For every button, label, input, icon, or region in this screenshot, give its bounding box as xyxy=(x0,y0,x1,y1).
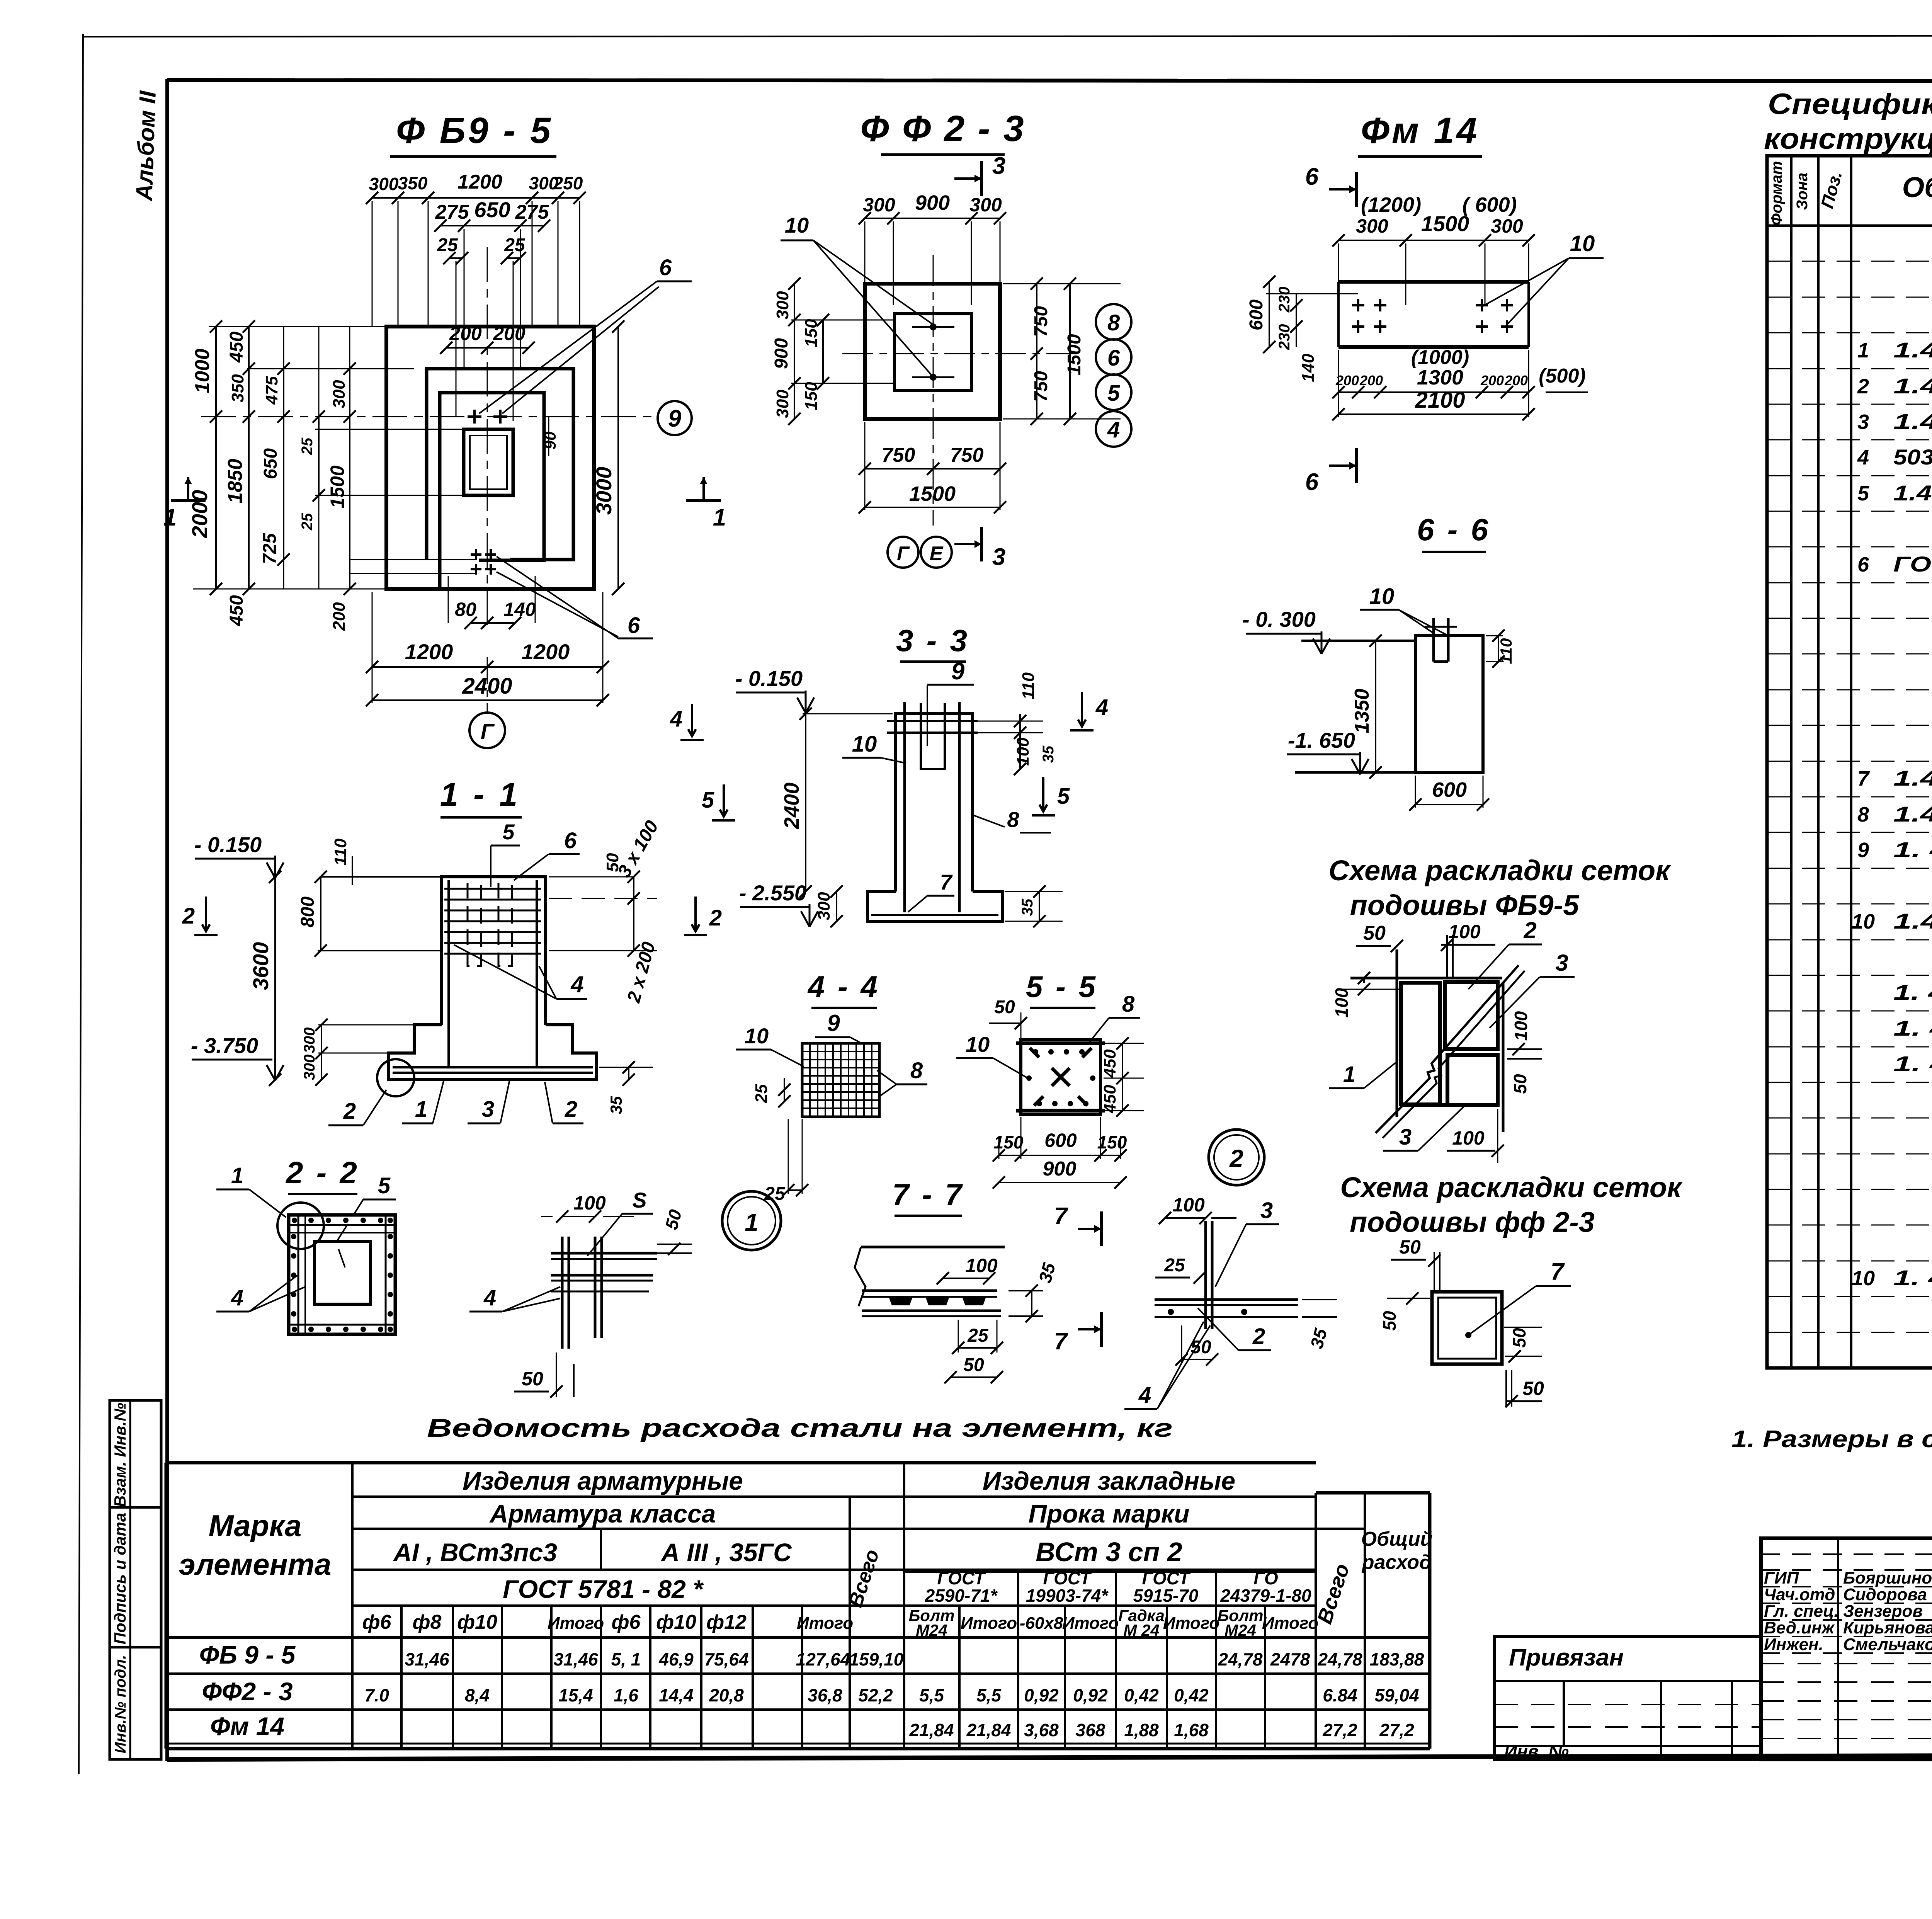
svg-text:50: 50 xyxy=(994,997,1015,1017)
svg-text:1500: 1500 xyxy=(1064,334,1085,375)
svg-text:- 0.150: - 0.150 xyxy=(194,832,262,857)
section mark 6 top xyxy=(1355,172,1358,207)
svg-text:2: 2 xyxy=(1252,1324,1265,1349)
svg-text:750: 750 xyxy=(1031,306,1051,337)
svg-text:600: 600 xyxy=(1044,1130,1077,1151)
svg-text:50: 50 xyxy=(1522,1378,1544,1399)
svg-text:600: 600 xyxy=(1432,778,1467,801)
svg-text:4: 4 xyxy=(1857,446,1869,469)
svg-text:600: 600 xyxy=(1246,299,1267,330)
svg-text:50: 50 xyxy=(1363,922,1386,944)
svg-text:50: 50 xyxy=(1510,1074,1530,1094)
ФФ2-3 bolts xyxy=(930,323,937,330)
svg-text:ГИП: ГИП xyxy=(1764,1569,1799,1587)
svg-text:5,5: 5,5 xyxy=(976,1685,1002,1705)
svg-text:элемента: элемента xyxy=(179,1547,332,1581)
3-3 wall outline xyxy=(896,714,973,891)
svg-text:1. Размеры в скобках ФМ14: 1. Размеры в скобках ФМ14 даны для узла … xyxy=(1731,1426,1932,1453)
svg-text:10: 10 xyxy=(1852,910,1875,933)
svg-text:Чач.отд: Чач.отд xyxy=(1764,1585,1835,1604)
svg-text:Итого: Итого xyxy=(1062,1614,1119,1633)
svg-text:2478: 2478 xyxy=(1270,1649,1310,1669)
right detail plates xyxy=(1155,1298,1298,1301)
ФБ9-5 dim 90 xyxy=(548,417,549,456)
svg-text:230: 230 xyxy=(1276,324,1293,350)
svg-text:- 2.550: - 2.550 xyxy=(739,881,806,905)
1-1 base rebar lines xyxy=(393,1066,593,1068)
svg-text:10: 10 xyxy=(852,732,877,757)
steel table bottom line xyxy=(166,1747,1430,1751)
svg-text:Инв. №: Инв. № xyxy=(1504,1741,1569,1761)
svg-text:100: 100 xyxy=(1014,737,1032,766)
схема ФБ9-5 mesh rect C xyxy=(1447,1055,1498,1105)
ФБ9-5 top dimension row 3 xyxy=(449,257,462,259)
node circle 2 xyxy=(1209,1130,1264,1185)
svg-text:5: 5 xyxy=(378,1173,391,1198)
svg-text:1500: 1500 xyxy=(909,482,956,505)
svg-text:250: 250 xyxy=(553,173,583,193)
svg-text:Е: Е xyxy=(930,543,944,565)
svg-text:Г: Г xyxy=(897,543,910,565)
svg-text:8: 8 xyxy=(1007,807,1019,832)
3-3 right top dims xyxy=(1019,714,1021,769)
svg-text:230: 230 xyxy=(1276,287,1293,313)
svg-text:1500: 1500 xyxy=(327,465,348,508)
svg-text:450: 450 xyxy=(1100,1085,1119,1114)
6-6 bottom ground line xyxy=(1295,771,1415,774)
svg-text:ф6: ф6 xyxy=(362,1611,392,1633)
svg-text:2: 2 xyxy=(343,1099,356,1124)
2-2 outer square xyxy=(289,1215,395,1334)
svg-text:100: 100 xyxy=(1332,988,1352,1017)
ФФ2-3 inner square xyxy=(895,314,971,390)
svg-text:3600: 3600 xyxy=(248,942,273,990)
svg-text:Общий: Общий xyxy=(1361,1528,1433,1550)
section mark 6 bottom xyxy=(1355,448,1358,483)
svg-text:150: 150 xyxy=(802,382,821,410)
svg-text:2: 2 xyxy=(1229,1145,1243,1172)
title block signature columns xyxy=(1837,1538,1839,1759)
svg-text:150: 150 xyxy=(994,1132,1024,1152)
svg-text:Сидорова: Сидорова xyxy=(1843,1585,1927,1604)
svg-text:5: 5 xyxy=(1857,482,1869,505)
3-3 base slab xyxy=(867,891,1002,921)
svg-text:Бояршинов: Бояршинов xyxy=(1843,1569,1932,1587)
svg-text:21,84: 21,84 xyxy=(966,1720,1011,1740)
svg-text:2: 2 xyxy=(565,1097,577,1122)
svg-text:900: 900 xyxy=(1043,1158,1077,1180)
svg-text:2: 2 xyxy=(1523,917,1536,943)
frame left border xyxy=(165,79,169,1761)
2-2 node circle xyxy=(277,1203,324,1249)
3-3 rebar verticals xyxy=(903,702,906,912)
svg-text:650: 650 xyxy=(474,197,510,222)
svg-text:1.410-3 вып. 1: 1.410-3 вып. 1 xyxy=(1893,766,1932,790)
svg-text:( 600): ( 600) xyxy=(1462,193,1517,216)
svg-text:2 - 2: 2 - 2 xyxy=(285,1155,359,1190)
svg-text:750: 750 xyxy=(950,444,984,466)
svg-text:300: 300 xyxy=(969,194,1002,216)
svg-text:6: 6 xyxy=(1305,469,1319,495)
ФБ9-5 bottom dim 80 140 xyxy=(471,622,487,624)
svg-text:1200: 1200 xyxy=(405,640,453,664)
5-5 right dims 450 450 xyxy=(1122,1043,1123,1111)
svg-text:подошвы ФБ9-5: подошвы ФБ9-5 xyxy=(1350,889,1580,921)
ФБ9-5 inner step ring xyxy=(440,393,544,589)
5-5 diagonal braces xyxy=(1030,1048,1092,1110)
svg-text:20,8: 20,8 xyxy=(709,1685,744,1705)
ФФ2-3 right dims xyxy=(1036,284,1037,419)
svg-text:750: 750 xyxy=(1031,371,1051,402)
section mark 1 left xyxy=(171,499,206,502)
svg-text:Гл. спец.: Гл. спец. xyxy=(1764,1602,1839,1621)
svg-text:1: 1 xyxy=(1343,1062,1355,1087)
svg-text:ф8: ф8 xyxy=(413,1611,442,1633)
svg-text:1,6: 1,6 xyxy=(614,1685,638,1705)
svg-text:150: 150 xyxy=(1097,1132,1127,1152)
svg-text:Подпись и дата: Подпись и дата xyxy=(111,1513,129,1644)
svg-text:Итого: Итого xyxy=(797,1614,853,1633)
svg-text:150: 150 xyxy=(802,319,821,347)
2-2 inner square xyxy=(315,1242,371,1304)
7-7 plate with studs xyxy=(862,1290,997,1292)
ФФ2-3 centerlines xyxy=(842,353,1082,354)
steel table right verticals xyxy=(958,1606,961,1749)
svg-text:10: 10 xyxy=(785,213,809,237)
svg-text:200: 200 xyxy=(1504,373,1528,388)
svg-text:300: 300 xyxy=(815,892,833,920)
svg-text:725: 725 xyxy=(260,533,280,564)
svg-text:50: 50 xyxy=(522,1368,543,1390)
svg-text:650: 650 xyxy=(260,448,281,479)
corner detail bars xyxy=(561,1237,564,1349)
axis circles Г Е xyxy=(888,537,918,568)
svg-text:5 - 5: 5 - 5 xyxy=(1026,970,1098,1004)
svg-text:3: 3 xyxy=(1857,410,1869,434)
svg-text:900: 900 xyxy=(915,191,950,214)
svg-text:31,46: 31,46 xyxy=(405,1649,449,1669)
svg-text:25: 25 xyxy=(299,513,316,531)
svg-text:6: 6 xyxy=(628,613,640,638)
2-2 stirrup lines xyxy=(298,1215,299,1334)
svg-text:Итого: Итого xyxy=(1262,1614,1318,1633)
svg-text:14,4: 14,4 xyxy=(659,1685,694,1705)
svg-text:3: 3 xyxy=(1555,950,1568,976)
svg-text:Инв.№ подл.: Инв.№ подл. xyxy=(112,1655,129,1754)
svg-text:59,04: 59,04 xyxy=(1374,1685,1419,1705)
left column block outline xyxy=(110,1400,161,1759)
ФБ9-5 horizontal inner dim 200 200 xyxy=(446,347,529,349)
svg-text:1: 1 xyxy=(745,1208,759,1236)
ФМ14 leader 10 xyxy=(1483,258,1569,324)
svg-text:5: 5 xyxy=(1107,381,1120,406)
svg-text:Итого: Итого xyxy=(1163,1614,1219,1633)
svg-text:Взам. Инв.№: Взам. Инв.№ xyxy=(111,1403,129,1507)
svg-text:конструкции фундаментов ФБ9-5: конструкции фундаментов ФБ9-5; ФФ2-3; Фм… xyxy=(1764,122,1932,155)
svg-text:9: 9 xyxy=(951,658,965,685)
ФБ9-5 outer footing rectangle xyxy=(386,327,594,589)
svg-text:1: 1 xyxy=(231,1163,243,1188)
svg-text:Альбом II: Альбом II xyxy=(131,90,161,202)
svg-text:ф10: ф10 xyxy=(656,1611,696,1633)
svg-text:200: 200 xyxy=(1480,373,1504,388)
svg-text:300: 300 xyxy=(330,380,349,408)
ФБ9-5 left dimension columns xyxy=(216,327,217,589)
svg-text:ГОСТ 24379.1-80: ГОСТ 24379.1-80 xyxy=(1893,552,1932,576)
svg-text:ГОСТ 5781 - 82 *: ГОСТ 5781 - 82 * xyxy=(503,1575,704,1603)
svg-text:5915-70: 5915-70 xyxy=(1133,1586,1199,1606)
svg-text:8: 8 xyxy=(1122,992,1135,1017)
6-6 pier outline xyxy=(1415,636,1483,772)
ФБ9-5 centerline vertical xyxy=(487,247,488,629)
svg-text:110: 110 xyxy=(1497,638,1515,664)
ФФ2-3 outer square xyxy=(865,284,1000,419)
svg-text:21,84: 21,84 xyxy=(909,1720,954,1740)
svg-text:1. 412.1-4. 050: 1. 412.1-4. 050 xyxy=(1893,837,1932,862)
svg-text:25: 25 xyxy=(299,437,316,455)
6-6 dim 600 xyxy=(1415,804,1483,805)
ФБ9-5 top extension lines xyxy=(372,201,373,327)
svg-text:1850: 1850 xyxy=(224,459,247,504)
frame bottom border xyxy=(167,1754,1932,1759)
svg-text:3: 3 xyxy=(1399,1125,1412,1150)
svg-text:6: 6 xyxy=(564,828,577,853)
2-2 rebar dots xyxy=(292,1218,297,1223)
svg-text:0,42: 0,42 xyxy=(1124,1685,1159,1705)
ФБ9-5 anchor bolts top pair xyxy=(468,410,481,424)
svg-text:1.412. 1-4. 060: 1.412. 1-4. 060 xyxy=(1893,909,1932,933)
svg-text:(1000): (1000) xyxy=(1411,346,1469,369)
svg-text:5,5: 5,5 xyxy=(919,1685,944,1705)
svg-text:350: 350 xyxy=(398,173,428,193)
svg-text:25: 25 xyxy=(504,235,526,255)
svg-text:25: 25 xyxy=(1164,1255,1185,1276)
steel table data row lines xyxy=(166,1672,1430,1675)
svg-text:6: 6 xyxy=(1305,163,1319,190)
1-1 column rebar verticals xyxy=(447,880,450,1067)
svg-text:расход: расход xyxy=(1361,1551,1432,1574)
svg-text:25: 25 xyxy=(752,1084,771,1103)
svg-text:ф12: ф12 xyxy=(706,1611,747,1633)
svg-text:2: 2 xyxy=(709,905,722,931)
7-7 section marks xyxy=(1100,1211,1103,1246)
ФФ2-3 left dims xyxy=(794,284,795,419)
svg-text:100: 100 xyxy=(1172,1194,1205,1216)
svg-text:1200: 1200 xyxy=(457,171,502,193)
svg-text:7: 7 xyxy=(1857,767,1870,790)
svg-text:М24: М24 xyxy=(916,1621,947,1639)
svg-text:Кирьянова: Кирьянова xyxy=(1843,1618,1932,1637)
svg-text:100: 100 xyxy=(965,1255,998,1276)
svg-text:Изделия закладные: Изделия закладные xyxy=(983,1466,1235,1495)
7-7 bottom plate xyxy=(862,1310,1001,1312)
1-1 dim 800 xyxy=(320,877,321,951)
svg-text:1500: 1500 xyxy=(1421,211,1469,236)
svg-text:- 0.150: - 0.150 xyxy=(735,666,803,691)
svg-text:3000: 3000 xyxy=(592,467,616,515)
1-1 mesh hooks xyxy=(468,883,481,966)
svg-text:-60х8: -60х8 xyxy=(1020,1614,1063,1633)
svg-text:5, 1: 5, 1 xyxy=(611,1649,641,1669)
svg-text:1350: 1350 xyxy=(1351,689,1373,733)
svg-text:8: 8 xyxy=(910,1058,923,1083)
svg-text:5: 5 xyxy=(502,820,515,844)
section mark 3 top xyxy=(980,161,983,196)
section mark 1 right xyxy=(686,499,721,502)
divider взам/подпись xyxy=(110,1506,161,1509)
svg-text:75,64: 75,64 xyxy=(704,1649,748,1669)
ФБ9-5 anchor bolts bottom group xyxy=(471,549,481,560)
svg-text:- 3.750: - 3.750 xyxy=(191,1033,258,1058)
svg-text:10: 10 xyxy=(1369,584,1395,609)
svg-text:Ведомость расхода стали на: Ведомость расхода стали на элемент, кг xyxy=(427,1414,1173,1442)
ФБ9-5 bottom dim 2400 xyxy=(372,699,603,701)
svg-text:300: 300 xyxy=(1491,215,1523,237)
svg-text:Зона: Зона xyxy=(1794,173,1811,210)
right detail bars xyxy=(1204,1221,1207,1329)
5-5 center X xyxy=(1052,1068,1070,1086)
steel table verticals xyxy=(351,1463,354,1749)
svg-text:2: 2 xyxy=(182,903,195,929)
3-3 dim 2400 xyxy=(805,714,806,891)
svg-text:Схема раскладки сеток: Схема раскладки сеток xyxy=(1340,1171,1683,1203)
7-7 top plate line xyxy=(861,1246,1005,1249)
ФБ9-5 right dim 3000 xyxy=(617,327,619,589)
svg-text:3: 3 xyxy=(992,153,1005,179)
steel table left edge xyxy=(165,1463,168,1749)
svg-text:Спецификация монолитной желе: Спецификация монолитной железобетанной xyxy=(1768,88,1932,121)
svg-text:А III , 35ГС: А III , 35ГС xyxy=(660,1538,792,1567)
svg-text:7: 7 xyxy=(1054,1328,1068,1355)
svg-text:ф10: ф10 xyxy=(457,1611,497,1633)
3-3 right bottom dim 35 xyxy=(1039,891,1040,921)
svg-text:1: 1 xyxy=(163,504,177,531)
svg-text:2590-71*: 2590-71* xyxy=(925,1586,998,1606)
схема ФБ9-5 mesh rect B xyxy=(1445,982,1498,1049)
svg-text:35: 35 xyxy=(1040,745,1057,763)
svg-text:4: 4 xyxy=(670,706,682,732)
svg-text:140: 140 xyxy=(1299,354,1318,382)
svg-text:3,68: 3,68 xyxy=(1024,1720,1059,1740)
svg-text:2: 2 xyxy=(1857,375,1869,398)
1-1 mark 2 left xyxy=(194,897,218,935)
1-1 left 300 dims xyxy=(321,1025,322,1080)
svg-text:300: 300 xyxy=(301,1028,318,1053)
svg-text:ф6: ф6 xyxy=(612,1611,641,1633)
leader 6 bottom xyxy=(497,556,618,638)
3-3 rebar top hooks xyxy=(887,720,978,722)
svg-text:100: 100 xyxy=(1511,1011,1531,1041)
section mark 3 bottom xyxy=(980,527,983,561)
svg-text:4: 4 xyxy=(483,1285,496,1310)
svg-text:300: 300 xyxy=(773,291,792,320)
svg-text:6.84: 6.84 xyxy=(1323,1685,1357,1705)
svg-text:110: 110 xyxy=(331,838,350,866)
svg-text:9: 9 xyxy=(668,405,682,432)
svg-text:1: 1 xyxy=(1857,339,1869,362)
svg-text:50: 50 xyxy=(1379,1311,1400,1331)
svg-text:90: 90 xyxy=(541,432,559,450)
svg-text:27,2: 27,2 xyxy=(1379,1720,1414,1740)
svg-text:900: 900 xyxy=(771,338,792,369)
svg-text:50: 50 xyxy=(1399,1236,1421,1258)
svg-text:4 - 4: 4 - 4 xyxy=(807,970,880,1004)
svg-text:Итого: Итого xyxy=(961,1614,1017,1633)
svg-text:4: 4 xyxy=(570,971,583,997)
axis circle Г xyxy=(469,713,505,748)
svg-text:ФФ2 - 3: ФФ2 - 3 xyxy=(202,1677,293,1706)
svg-text:3: 3 xyxy=(1260,1198,1273,1223)
svg-text:46,9: 46,9 xyxy=(658,1649,694,1669)
svg-text:Обозначение: Обозначение xyxy=(1902,171,1932,203)
svg-text:300: 300 xyxy=(1356,215,1388,237)
ФМ14 left dims xyxy=(1269,282,1270,347)
svg-text:М 24: М 24 xyxy=(1123,1621,1159,1639)
3-3 label 8 xyxy=(974,815,1005,827)
svg-text:475: 475 xyxy=(262,376,281,405)
svg-text:1 - 1: 1 - 1 xyxy=(440,776,520,813)
6-6 dim 110 xyxy=(1498,636,1499,662)
svg-text:Смельчаков: Смельчаков xyxy=(1843,1635,1932,1654)
sheet edge left thin line xyxy=(79,34,83,1774)
svg-text:19903-74*: 19903-74* xyxy=(1026,1586,1109,1606)
svg-text:подошвы фф 2-3: подошвы фф 2-3 xyxy=(1350,1206,1595,1238)
svg-text:159,10: 159,10 xyxy=(849,1649,904,1669)
specification table grid xyxy=(1767,156,1932,1368)
svg-text:Ф Ф 2 - 3: Ф Ф 2 - 3 xyxy=(860,108,1025,149)
svg-text:24379-1-80: 24379-1-80 xyxy=(1220,1586,1311,1606)
ФБ9-5 top dimension row 1 xyxy=(372,197,580,199)
svg-text:1.410-3 вып. 1: 1.410-3 вып. 1 xyxy=(1893,409,1932,434)
5-5 rebar dots xyxy=(1033,1049,1038,1055)
svg-text:(500): (500) xyxy=(1539,365,1585,387)
svg-text:2100: 2100 xyxy=(1415,388,1465,413)
svg-text:300: 300 xyxy=(369,174,399,194)
svg-text:Формат: Формат xyxy=(1768,161,1785,226)
1-1 steps and base xyxy=(389,1025,597,1080)
svg-text:31,46: 31,46 xyxy=(553,1649,598,1669)
svg-text:450: 450 xyxy=(226,595,247,626)
svg-text:27,2: 27,2 xyxy=(1322,1720,1357,1740)
svg-text:10: 10 xyxy=(1852,1267,1875,1290)
svg-text:Итого: Итого xyxy=(548,1614,604,1633)
svg-text:Марка: Марка xyxy=(209,1509,302,1543)
svg-text:ФБ 9 - 5: ФБ 9 - 5 xyxy=(199,1640,296,1669)
svg-text:Г: Г xyxy=(481,719,495,743)
svg-text:Схема раскладки сеток: Схема раскладки сеток xyxy=(1328,854,1671,886)
svg-text:10: 10 xyxy=(745,1024,769,1048)
схема ФБ9-5 right vertical line xyxy=(1502,982,1505,1132)
svg-text:80: 80 xyxy=(455,599,476,620)
svg-text:503-4-46.87-кжи-с1: 503-4-46.87-кжи-с1 xyxy=(1893,445,1932,469)
svg-text:9: 9 xyxy=(1857,839,1869,862)
svg-text:7: 7 xyxy=(1551,1259,1565,1285)
svg-text:4: 4 xyxy=(1095,695,1108,720)
svg-text:50: 50 xyxy=(963,1355,984,1375)
corner detail plates xyxy=(551,1252,657,1255)
svg-text:3: 3 xyxy=(482,1097,494,1122)
svg-text:1. 412. 1-4. 060: 1. 412. 1-4. 060 xyxy=(1893,1266,1932,1290)
svg-text:4: 4 xyxy=(231,1285,243,1310)
svg-text:200: 200 xyxy=(493,323,526,344)
svg-text:0,42: 0,42 xyxy=(1174,1685,1209,1705)
svg-text:1000: 1000 xyxy=(191,349,214,393)
svg-text:3: 3 xyxy=(992,544,1005,570)
схема ФБ9-5 mesh rect A xyxy=(1401,983,1440,1104)
svg-text:5: 5 xyxy=(1057,784,1070,809)
svg-text:15,4: 15,4 xyxy=(558,1685,593,1705)
svg-text:1.412-1/77 вып.3: 1.412-1/77 вып.3 xyxy=(1893,481,1932,505)
